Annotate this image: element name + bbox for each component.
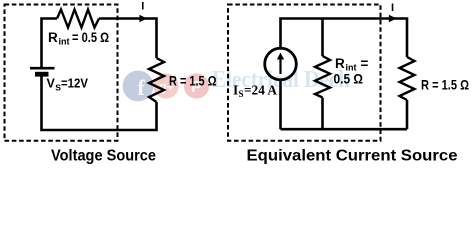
wire: below current source bbox=[279, 81, 282, 129]
wire: left loop top-left segment (battery top to R_int) bbox=[42, 19, 58, 68]
svg-text:R: R bbox=[335, 56, 345, 71]
svg-text:R: R bbox=[48, 30, 58, 45]
svg-text:I: I bbox=[233, 83, 238, 98]
svg-text:V: V bbox=[47, 77, 56, 91]
label R_int = (right circuit, line 1) bbox=[335, 56, 369, 73]
arrow: current I (left circuit) bbox=[139, 15, 147, 23]
svg-text:S: S bbox=[239, 89, 244, 99]
watermark: google-plus icon bbox=[153, 73, 178, 98]
resistor R_int 0.5 ohm (parallel, vertical zigzag) bbox=[315, 56, 330, 98]
label I_S = 24 A bbox=[233, 83, 277, 100]
svg-text:I: I bbox=[141, 1, 144, 13]
current source I_S circle bbox=[265, 48, 297, 80]
watermark: facebook icon bbox=[123, 71, 154, 102]
wire: R_int branch bottom stub bbox=[321, 98, 324, 130]
svg-text:R = 1.5 Ω: R = 1.5 Ω bbox=[169, 73, 217, 89]
resistor R 1.5 ohm (load, vertical zigzag, left circuit) bbox=[149, 58, 164, 102]
wire: right loop top rail bbox=[281, 19, 408, 58]
resistor R_int 0.5 ohm (series, horizontal zigzag) bbox=[57, 10, 99, 28]
svg-text:f: f bbox=[137, 75, 145, 100]
wire: R_int branch top stub bbox=[321, 19, 324, 57]
svg-text:=24 A: =24 A bbox=[244, 83, 277, 98]
resistor R 1.5 ohm (load, vertical zigzag, right circuit) bbox=[400, 57, 415, 100]
watermark: pinterest icon bbox=[184, 73, 209, 98]
label R_int = 0.5 ohm bbox=[48, 30, 109, 47]
svg-text:I: I bbox=[391, 2, 394, 14]
current source arrow (up) bbox=[277, 53, 284, 75]
arrow: current I (right circuit) bbox=[389, 15, 397, 23]
wire: R branch bottom stub bbox=[406, 100, 409, 129]
battery V_S: short thick plate bbox=[35, 72, 49, 77]
svg-text:= 0.5 Ω: = 0.5 Ω bbox=[72, 30, 109, 45]
svg-text:Voltage Source: Voltage Source bbox=[51, 148, 156, 165]
svg-text:Equivalent Current Source: Equivalent Current Source bbox=[247, 148, 458, 165]
label V_S = 12V bbox=[47, 77, 89, 93]
svg-text:=: = bbox=[361, 56, 369, 71]
wire: left loop bottom + left side up to battery bbox=[42, 76, 157, 130]
svg-text:0.5 Ω: 0.5 Ω bbox=[334, 72, 364, 87]
wire: left loop top-right segment bbox=[99, 19, 157, 59]
battery V_S: long plate bbox=[30, 67, 55, 70]
dashed box: equivalent current source boundary bbox=[228, 5, 381, 141]
svg-text:=12V: =12V bbox=[61, 77, 89, 91]
dashed box: voltage source boundary bbox=[5, 5, 118, 141]
svg-text:R = 1.5 Ω: R = 1.5 Ω bbox=[421, 77, 469, 93]
wire: right loop bottom rail bbox=[281, 128, 408, 131]
svg-text:int: int bbox=[59, 37, 70, 47]
